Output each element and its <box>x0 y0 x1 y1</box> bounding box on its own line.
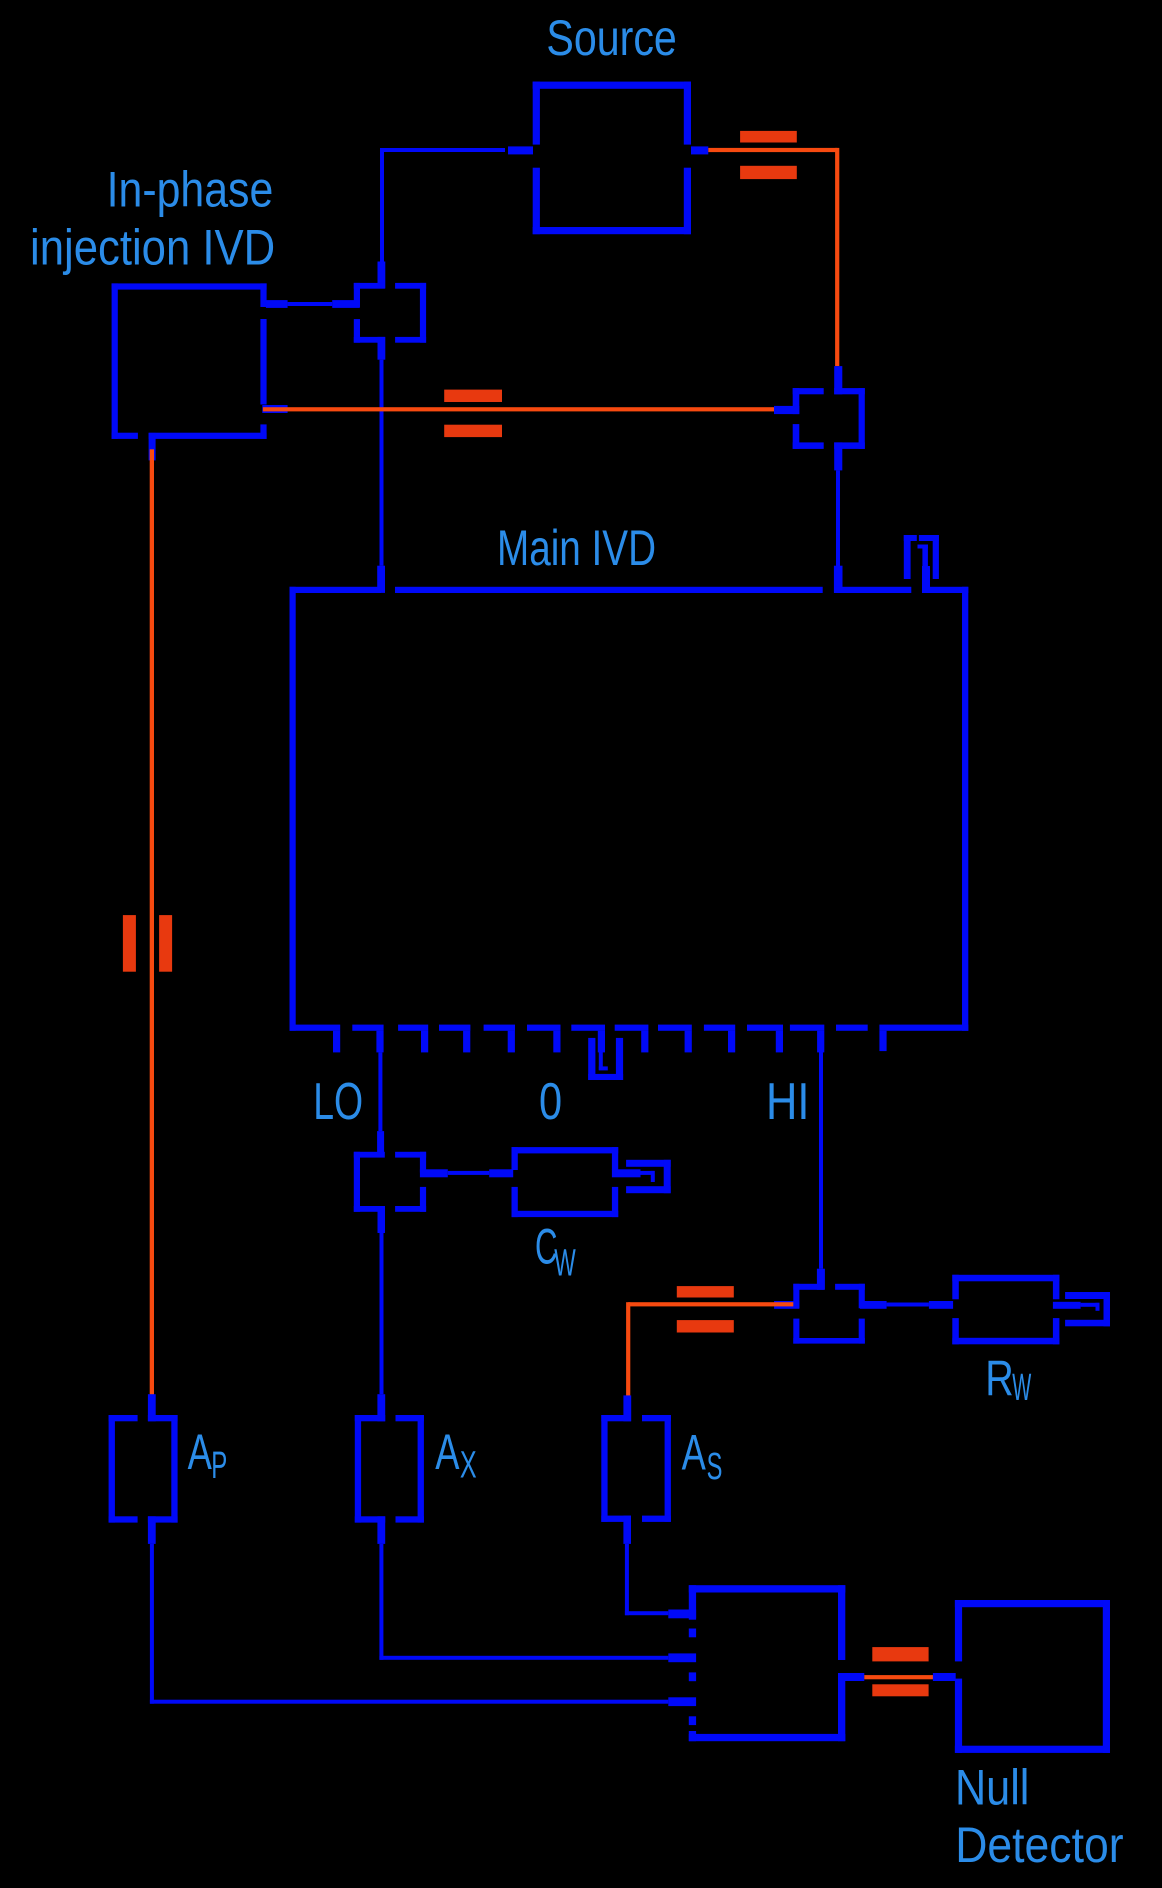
label 0 <box>539 1073 562 1131</box>
svg-text:Detector: Detector <box>955 1817 1123 1873</box>
amplifier AX box <box>355 1415 424 1544</box>
label AX <box>435 1424 476 1486</box>
svg-text:In-phase: In-phase <box>107 162 274 218</box>
svg-text:Main IVD: Main IVD <box>497 520 656 576</box>
label Cw <box>535 1218 576 1284</box>
connector C4 (tee on HI) <box>774 1284 887 1344</box>
svg-text:W: W <box>1012 1367 1031 1409</box>
wire C3 to AX <box>377 1233 385 1421</box>
svg-text:LO: LO <box>313 1073 363 1131</box>
label Main IVD <box>497 520 656 576</box>
wire source left to injection tee <box>378 146 534 288</box>
svg-text:0: 0 <box>539 1073 562 1131</box>
connector C3 (Cw tee on LO) <box>354 1152 448 1233</box>
wire C4 to Rw <box>887 1301 954 1309</box>
wire AX to junction box <box>379 1544 696 1662</box>
svg-text:HI: HI <box>766 1073 810 1131</box>
connector C1 (in-phase injection tee) <box>354 283 426 360</box>
amplifier AS box <box>601 1415 671 1544</box>
svg-text:injection IVD: injection IVD <box>30 220 275 276</box>
svg-text:Null: Null <box>955 1760 1029 1816</box>
orange wire injection IVD down to AP <box>149 433 156 1395</box>
orange coax C4 to AS <box>623 1302 793 1421</box>
open coax connector at 0 tap <box>588 1038 623 1080</box>
orange coax injection IVD to main tee <box>262 405 793 413</box>
orange coax junction to null detector <box>838 1673 956 1681</box>
svg-text:P: P <box>211 1445 227 1487</box>
label In-phase injection IVD <box>30 162 275 276</box>
svg-text:W: W <box>554 1243 576 1285</box>
svg-text:S: S <box>707 1446 723 1488</box>
open coax connector at Cw output <box>612 1160 671 1193</box>
label AP <box>188 1424 228 1487</box>
red choke bars on detector coax <box>872 1647 928 1696</box>
label Null Detector <box>955 1760 1124 1873</box>
amplifier AP box <box>109 1394 178 1544</box>
Main IVD bottom winding taps <box>290 1025 969 1053</box>
svg-text:A: A <box>188 1424 213 1480</box>
red choke bars on AS coax <box>677 1286 734 1332</box>
svg-text:X: X <box>460 1445 477 1487</box>
label LO <box>313 1073 363 1131</box>
Main IVD box outline <box>290 587 969 1031</box>
Null Detector box <box>955 1600 1110 1753</box>
label Rw <box>985 1350 1031 1409</box>
svg-text:A: A <box>682 1425 707 1481</box>
capacitor Cw box <box>512 1147 619 1217</box>
svg-text:A: A <box>435 1424 460 1480</box>
wire C2 to main IVD top <box>834 470 843 593</box>
label Source <box>546 10 676 66</box>
wire LO tap down to C3 <box>377 1052 384 1157</box>
resistor Rw box <box>952 1275 1059 1345</box>
open coax connector at IVD top right <box>904 535 939 593</box>
open coax connector at Rw output <box>1053 1292 1110 1326</box>
connector C2 (main tee at HI feed) <box>774 366 865 470</box>
wire AS to junction box <box>625 1544 696 1618</box>
label AS <box>682 1425 723 1489</box>
wire HI tap down to C4 <box>817 1051 825 1290</box>
wire AP to junction box <box>150 1544 696 1706</box>
red choke bars on AP coax <box>123 915 172 972</box>
label HI <box>766 1073 810 1131</box>
wire C3 tap to Cw box <box>448 1169 513 1177</box>
wire C1 to main IVD top <box>377 360 385 593</box>
stub injection IVD to C1 <box>266 300 360 308</box>
svg-text:R: R <box>985 1350 1014 1406</box>
Source block <box>533 82 691 235</box>
In-phase injection IVD box <box>112 283 267 439</box>
svg-text:Source: Source <box>546 10 676 66</box>
summing junction box <box>689 1585 846 1741</box>
red choke bars at source output <box>740 131 797 179</box>
orange coax source right to main tee <box>691 146 839 366</box>
red choke bars on injection coax <box>444 390 502 438</box>
